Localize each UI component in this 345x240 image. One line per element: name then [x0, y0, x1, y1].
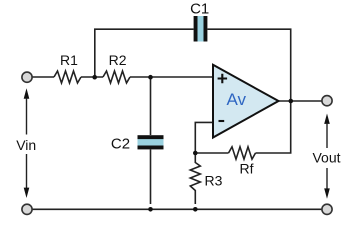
svg-text:C2: C2: [111, 136, 130, 153]
junction C2 ground: [148, 207, 153, 212]
svg-text:Vin: Vin: [16, 137, 36, 153]
wire output down to Rf: [256, 101, 291, 153]
svg-text:R2: R2: [109, 52, 127, 68]
svg-text:Vout: Vout: [312, 150, 340, 166]
junction node A (R1/R2/C1): [92, 75, 97, 80]
terminal Vout bottom: [322, 204, 332, 214]
wire between R1 and node A: [81, 76, 103, 78]
wire op-amp inverting input to node B: [195, 122, 213, 153]
wire C2 bottom to ground rail: [150, 150, 152, 205]
Vin arrow: [24, 88, 30, 198]
wire from R2 to op-amp non-inverting input: [130, 76, 213, 78]
junction output node: [289, 99, 294, 104]
pin +: [218, 74, 228, 84]
wire ground rail: [33, 208, 322, 210]
terminal Vin top: [22, 72, 32, 82]
svg-text:C1: C1: [190, 1, 209, 18]
svg-text:R3: R3: [205, 173, 223, 189]
resistor Rf: [229, 147, 256, 159]
svg-text:R1: R1: [60, 52, 78, 68]
wire node A up to C1: [95, 29, 194, 77]
capacitor C2: [138, 135, 164, 149]
wire from C1 right plate to output vertical: [208, 29, 291, 101]
pin -: [219, 120, 225, 122]
capacitor C1: [194, 16, 208, 42]
resistor R3: [190, 153, 200, 204]
junction R3 ground: [193, 207, 198, 212]
wire node C2 top: [150, 77, 152, 135]
wire op-amp output to Vout+ terminal: [279, 100, 322, 102]
wire input from Vin+ terminal to R1: [33, 76, 55, 78]
terminal Vin bottom: [22, 204, 32, 214]
svg-text:Av: Av: [227, 90, 247, 109]
wire Rf to node B: [195, 152, 228, 154]
junction node B (Rf/R3/inverting): [193, 151, 198, 156]
junction node R2/C2/op-amp: [148, 75, 153, 80]
resistor R2: [103, 71, 130, 83]
op-amp U1: [213, 65, 279, 138]
Vout arrow: [324, 114, 330, 199]
resistor R1: [54, 71, 81, 83]
terminal Vout top: [322, 96, 332, 106]
svg-text:Rf: Rf: [240, 161, 254, 177]
